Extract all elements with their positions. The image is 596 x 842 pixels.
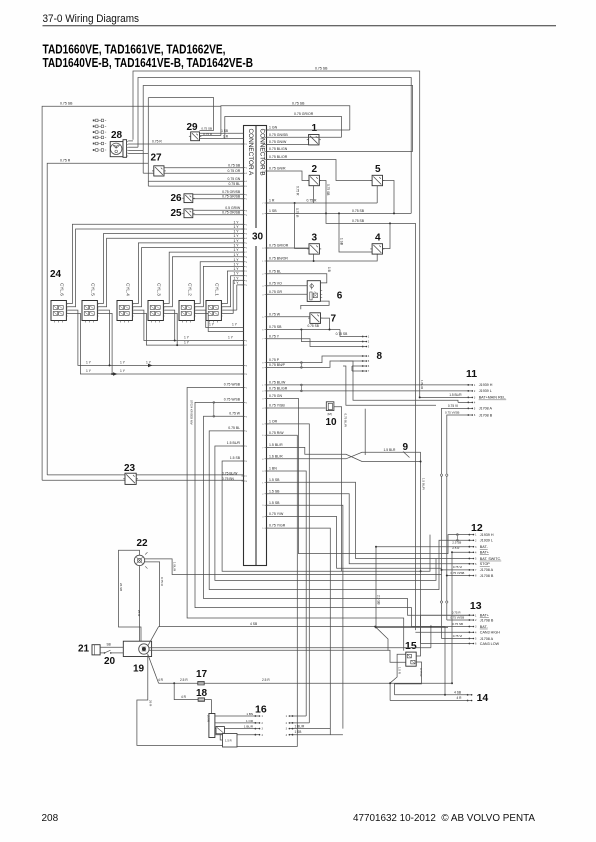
svg-text:2.5 SB: 2.5 SB [452,540,461,544]
svg-text:2.5 R: 2.5 R [180,678,188,682]
svg-text:BAT+: BAT+ [480,551,489,555]
svg-text:1 Y: 1 Y [233,234,239,238]
svg-text:0.75 P: 0.75 P [269,358,280,362]
svg-text:10: 10 [326,417,338,428]
svg-text:0.75 W: 0.75 W [229,412,241,416]
svg-text:1.5 BL/R: 1.5 BL/R [269,443,283,447]
svg-text:13: 13 [470,600,482,612]
svg-text:1 Y: 1 Y [233,220,239,224]
svg-text:0.75 W: 0.75 W [269,312,281,316]
svg-text:21: 21 [78,644,90,655]
svg-text:0.75 BL: 0.75 BL [228,426,240,430]
svg-text:J1939 H: J1939 H [479,383,493,387]
svg-text:16: 16 [255,704,267,716]
svg-text:1.5 SB: 1.5 SB [269,489,280,493]
svg-text:1 Y: 1 Y [232,323,238,327]
svg-text:0.75 R: 0.75 R [203,132,213,136]
svg-text:23: 23 [124,463,136,474]
svg-text:1 B: 1 B [327,267,331,272]
svg-text:TAD1640VE-B, TAD1641VE-B, TAD1: TAD1640VE-B, TAD1641VE-B, TAD1642VE-B [43,56,254,70]
svg-text:1 SB: 1 SB [269,209,277,213]
svg-text:17: 17 [196,669,208,680]
svg-text:0.75 W/SB: 0.75 W/SB [224,383,241,387]
svg-text:BAT+MAIN REL.: BAT+MAIN REL. [479,396,507,400]
svg-text:26 R: 26 R [149,700,153,707]
svg-text:25 R: 25 R [137,610,141,617]
svg-text:0.75 R/W: 0.75 R/W [269,431,284,435]
svg-text:0.75 Y: 0.75 Y [269,334,280,338]
svg-text:CAN3 HIGH: CAN3 HIGH [480,631,500,635]
svg-text:0.75 SB: 0.75 SB [308,324,319,328]
svg-text:0.75 GR/OR: 0.75 GR/OR [269,244,289,248]
svg-text:1 Y: 1 Y [233,281,239,285]
svg-text:1 BL/R: 1 BL/R [244,725,254,729]
svg-text:CYL.3: CYL.3 [157,283,162,296]
svg-text:1 Y: 1 Y [184,336,190,340]
svg-text:1 Y: 1 Y [233,276,239,280]
svg-text:1.5 BLR: 1.5 BLR [384,448,397,452]
svg-text:47701632 10-2012 © AB VOLVO P: 47701632 10-2012 © AB VOLVO PENTA [353,813,535,824]
svg-text:0.75 BL/W: 0.75 BL/W [269,381,286,385]
svg-text:0.75 VI: 0.75 VI [453,634,463,638]
svg-text:37-0 Wiring Diagrams: 37-0 Wiring Diagrams [43,13,140,25]
svg-text:4 R: 4 R [158,678,164,682]
svg-text:2: 2 [312,164,318,175]
svg-text:7: 7 [331,314,337,325]
svg-text:0.75 Y/SB: 0.75 Y/SB [269,404,285,408]
svg-text:3: 3 [312,232,318,243]
svg-text:1: 1 [312,123,318,134]
svg-text:2.5 R: 2.5 R [262,678,270,682]
svg-text:0.75 R: 0.75 R [295,186,299,196]
svg-text:BAT-: BAT- [480,625,489,629]
svg-text:J1708 B: J1708 B [479,413,493,417]
svg-text:4: 4 [375,232,381,243]
svg-text:0.75 GR/SB: 0.75 GR/SB [222,195,241,199]
svg-text:1 Y: 1 Y [233,230,239,234]
svg-text:1 Y: 1 Y [228,336,234,340]
svg-text:J1939 H: J1939 H [480,533,494,537]
svg-text:BAT+: BAT+ [480,614,489,618]
svg-text:29: 29 [187,122,199,133]
svg-text:0.5 GR/W: 0.5 GR/W [225,206,241,210]
svg-text:0.75 GR/OR: 0.75 GR/OR [294,112,314,116]
svg-text:SB: SB [107,642,111,646]
svg-text:1 BL/R: 1 BL/R [295,724,305,728]
svg-text:1 OR: 1 OR [269,420,278,424]
svg-text:1 BL/R: 1 BL/R [173,562,177,572]
svg-text:1 Y: 1 Y [233,239,239,243]
svg-text:1 Y: 1 Y [233,262,239,266]
svg-text:1 R: 1 R [223,134,229,138]
svg-text:J1939 L: J1939 L [480,539,493,543]
svg-text:2.5 SB: 2.5 SB [377,595,381,605]
svg-text:1 SB: 1 SB [221,129,228,133]
svg-text:0.75 R: 0.75 R [60,159,71,163]
svg-text:1 Y: 1 Y [233,272,239,276]
svg-text:0.75 BN/OR: 0.75 BN/OR [269,257,288,261]
svg-text:30: 30 [252,232,264,243]
svg-text:0.75 SB: 0.75 SB [269,325,282,329]
svg-text:0.75 W/SB: 0.75 W/SB [224,398,241,402]
svg-text:1 SB: 1 SB [339,238,343,245]
svg-text:4 R: 4 R [457,696,463,700]
svg-text:0.75 GN/R: 0.75 GN/R [269,167,286,171]
svg-text:1 Y: 1 Y [233,225,239,229]
svg-text:1.5 BL/R: 1.5 BL/R [227,441,241,445]
svg-text:J1708 A: J1708 A [480,568,494,572]
svg-text:0.75 BL/R: 0.75 BL/R [344,414,348,428]
svg-text:8: 8 [377,351,383,362]
svg-text:22: 22 [137,538,149,549]
svg-text:0.75 BL: 0.75 BL [269,269,281,273]
svg-text:0.75 R: 0.75 R [452,610,462,614]
svg-text:15: 15 [405,640,417,652]
svg-text:0.75 SB: 0.75 SB [292,101,305,105]
svg-text:0.75 VO: 0.75 VO [269,281,282,285]
svg-text:BAT-: BAT- [480,545,489,549]
svg-text:CYL.2: CYL.2 [188,283,193,296]
svg-text:1.5 BL/R: 1.5 BL/R [422,478,426,491]
svg-text:1.5 SB: 1.5 SB [230,456,241,460]
svg-text:1 Y: 1 Y [120,369,126,373]
svg-text:25: 25 [171,208,183,219]
svg-text:1 Y: 1 Y [233,244,239,248]
svg-text:1 BL/R: 1 BL/R [420,380,424,390]
svg-text:0.75 BN: 0.75 BN [222,477,235,481]
svg-text:CYL.4: CYL.4 [126,283,131,296]
svg-text:26 SB: 26 SB [119,583,123,591]
svg-text:0.75 R: 0.75 R [160,577,164,587]
svg-text:26: 26 [171,193,183,204]
svg-text:1.5 SB: 1.5 SB [269,501,280,505]
svg-text:1 Y: 1 Y [86,369,92,373]
svg-text:STOP: STOP [480,562,491,566]
svg-text:[M]: [M] [328,412,332,416]
svg-text:J1708 A: J1708 A [480,637,494,641]
svg-text:208: 208 [42,813,59,824]
svg-text:1 Y: 1 Y [233,248,239,252]
svg-text:0.75 GN: 0.75 GN [269,394,283,398]
svg-text:ST024 KP/SEB NIV: ST024 KP/SEB NIV [189,400,193,425]
svg-text:1.5 BL/R: 1.5 BL/R [449,393,462,397]
svg-text:4 SB: 4 SB [250,622,258,626]
svg-text:J1708: J1708 [207,715,211,723]
svg-text:1.5 R: 1.5 R [398,667,402,674]
svg-text:0.75 BL: 0.75 BL [228,182,240,186]
svg-text:1 R: 1 R [269,199,275,203]
svg-text:J1939 L: J1939 L [479,389,492,393]
svg-text:11: 11 [466,368,477,380]
svg-text:0.75 OR/SB: 0.75 OR/SB [222,190,241,194]
svg-text:1 Y: 1 Y [184,340,190,344]
svg-text:0.75 SB: 0.75 SB [315,66,328,70]
svg-text:5: 5 [375,164,381,175]
svg-text:0.75 VI/SB: 0.75 VI/SB [445,411,459,415]
svg-text:0.75 SB: 0.75 SB [326,184,330,195]
svg-text:1 BN: 1 BN [246,712,253,716]
svg-text:0.75 OR: 0.75 OR [228,169,241,173]
svg-text:1 BN: 1 BN [269,467,277,471]
svg-text:CAN3 LOW: CAN3 LOW [480,642,500,646]
svg-text:J1708 B: J1708 B [480,574,494,578]
svg-text:BAT. SWITC.: BAT. SWITC. [480,557,501,561]
svg-text:J1708 A: J1708 A [479,407,493,411]
svg-text:0.75 Y/GR: 0.75 Y/GR [269,524,286,528]
svg-text:0.75 Y/W: 0.75 Y/W [269,512,284,516]
svg-text:0.75 GN/SB: 0.75 GN/SB [269,133,288,137]
svg-text:1.5 SB: 1.5 SB [269,478,280,482]
svg-text:0.75 R: 0.75 R [152,140,162,144]
svg-text:1 Y: 1 Y [120,361,126,365]
svg-text:19: 19 [133,664,145,675]
svg-text:0.75 R: 0.75 R [307,198,318,202]
svg-text:1.5 R: 1.5 R [225,739,232,743]
svg-text:0.75 SB: 0.75 SB [452,622,463,626]
svg-text:CYL.5: CYL.5 [91,283,96,296]
svg-text:CONNECTOR A: CONNECTOR A [247,129,254,176]
svg-text:24: 24 [50,269,62,280]
svg-text:1 Y: 1 Y [233,258,239,262]
svg-text:CYL.6: CYL.6 [60,283,65,296]
svg-text:0.75 BL/OR: 0.75 BL/OR [269,155,288,159]
svg-text:0.75 R: 0.75 R [419,668,423,677]
svg-text:0.75 SB: 0.75 SB [336,332,349,336]
svg-text:1 Y: 1 Y [86,361,92,365]
svg-text:2.5 R: 2.5 R [452,546,460,550]
svg-text:0.75 GN/W: 0.75 GN/W [269,140,287,144]
svg-text:0.75 OR/SB: 0.75 OR/SB [222,211,241,215]
svg-text:18: 18 [196,688,208,699]
svg-text:0.75 BL/W: 0.75 BL/W [222,472,238,476]
svg-text:0.75 VI/SB: 0.75 VI/SB [451,571,465,575]
svg-text:1 GN: 1 GN [269,126,278,130]
svg-text:27: 27 [151,152,163,163]
svg-text:1 Y: 1 Y [233,267,239,271]
svg-text:TAD1660VE, TAD1661VE, TAD1662V: TAD1660VE, TAD1661VE, TAD1662VE, [43,43,226,57]
svg-text:0.75 BN/P: 0.75 BN/P [269,363,286,367]
svg-text:4 R: 4 R [181,695,187,699]
svg-text:0.75 SB: 0.75 SB [60,101,73,105]
svg-text:0.75 SB: 0.75 SB [228,164,241,168]
svg-text:4 SB: 4 SB [454,690,461,694]
svg-text:0.75 SB: 0.75 SB [201,127,212,131]
svg-text:9: 9 [403,442,409,453]
svg-text:20: 20 [104,656,116,667]
svg-text:0.75 BL/GR: 0.75 BL/GR [269,387,288,391]
svg-text:J1708 B: J1708 B [480,618,494,622]
svg-text:0.75 GN: 0.75 GN [228,177,241,181]
svg-text:1 Y: 1 Y [209,323,215,327]
svg-text:0.75 SB: 0.75 SB [352,219,365,223]
svg-text:1 Y: 1 Y [233,253,239,257]
svg-text:6: 6 [337,291,343,302]
svg-text:0.75 SB: 0.75 SB [352,209,365,213]
svg-text:0.75 VI: 0.75 VI [448,404,458,408]
svg-text:1.6 BL/R: 1.6 BL/R [269,454,283,458]
svg-text:0.75 VI: 0.75 VI [453,565,462,569]
svg-text:0.75 VI/SB: 0.75 VI/SB [450,616,464,620]
svg-text:CYL.1: CYL.1 [215,283,220,296]
svg-text:1 SB: 1 SB [295,730,302,734]
svg-text:28: 28 [111,130,123,141]
svg-text:0.75 BL/GN: 0.75 BL/GN [269,147,288,151]
svg-text:0.75 GR: 0.75 GR [269,290,283,294]
svg-text:14: 14 [477,692,489,704]
svg-text:1 OR: 1 OR [246,719,254,723]
